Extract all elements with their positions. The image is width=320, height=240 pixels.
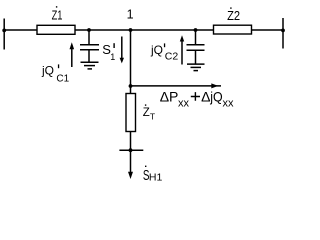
junction load node bbox=[129, 148, 133, 152]
wire C1 stub bbox=[88, 30, 90, 44]
capacitor C1 bottom plate bbox=[80, 49, 99, 51]
svg-text:C2: C2 bbox=[165, 51, 179, 63]
svg-text:T: T bbox=[150, 112, 155, 122]
arrow transformer losses (right) bbox=[131, 83, 222, 88]
svg-text:H1: H1 bbox=[149, 171, 163, 183]
svg-text:Z: Z bbox=[143, 107, 150, 119]
svg-text:xx: xx bbox=[223, 98, 235, 110]
arrow jQ'C2 (up) bbox=[180, 35, 184, 64]
load node tick bbox=[119, 149, 143, 151]
junction losses arrow bbox=[129, 84, 133, 88]
impedance Z2 box bbox=[214, 25, 252, 34]
wire C1 to ground bbox=[88, 50, 90, 62]
arrow S'1 (down) bbox=[120, 37, 124, 64]
bus terminal right bbox=[282, 18, 284, 49]
label jQ'C2 bbox=[150, 43, 178, 63]
label ZT bbox=[143, 104, 155, 121]
svg-text:C1: C1 bbox=[56, 73, 69, 84]
svg-text:1: 1 bbox=[110, 52, 115, 62]
ground under C2 bbox=[187, 64, 205, 71]
label S_H1 bbox=[143, 166, 163, 184]
svg-text:jQ: jQ bbox=[209, 89, 222, 105]
svg-text:Z1: Z1 bbox=[52, 8, 63, 22]
capacitor C2 top plate bbox=[187, 44, 205, 46]
svg-text:xx: xx bbox=[178, 98, 190, 110]
svg-text:Z2: Z2 bbox=[227, 9, 240, 23]
svg-text:ΔP: ΔP bbox=[160, 89, 179, 105]
svg-text:jQ: jQ bbox=[41, 64, 54, 78]
wire Z1 to Z2 bbox=[75, 29, 214, 31]
svg-text:Δ: Δ bbox=[201, 89, 210, 105]
arrow jQ'C1 (up) bbox=[70, 42, 75, 67]
wire C2 to ground bbox=[195, 50, 197, 63]
label Z1 bbox=[52, 6, 63, 22]
capacitor C1 top plate bbox=[80, 44, 99, 46]
bus terminal left bbox=[3, 19, 5, 50]
label delta P loss bbox=[160, 89, 234, 110]
wire Z2 to right bus bbox=[252, 29, 284, 31]
junction bus right bbox=[281, 29, 285, 33]
wire node 1 drop bbox=[130, 30, 132, 94]
ground under C1 bbox=[81, 62, 99, 69]
junction node 1 bbox=[129, 28, 133, 32]
svg-text:1: 1 bbox=[127, 8, 134, 22]
junction bus left bbox=[2, 29, 6, 33]
arrow S_H1 load (down) bbox=[128, 150, 133, 179]
impedance ZT box bbox=[126, 94, 136, 132]
wire C2 stub bbox=[195, 30, 197, 45]
wire left bus to Z1 bbox=[4, 29, 37, 31]
label jQ'C1 bbox=[41, 64, 70, 85]
capacitor C2 bottom plate bbox=[187, 49, 205, 51]
impedance Z1 box bbox=[37, 25, 75, 34]
label Z2 bbox=[227, 7, 240, 23]
label S'1 bbox=[102, 42, 115, 62]
svg-text:jQ: jQ bbox=[150, 43, 163, 57]
junction C2 bbox=[194, 28, 198, 32]
junction C1 bbox=[87, 28, 91, 32]
wire ZT to load node bbox=[130, 132, 132, 151]
